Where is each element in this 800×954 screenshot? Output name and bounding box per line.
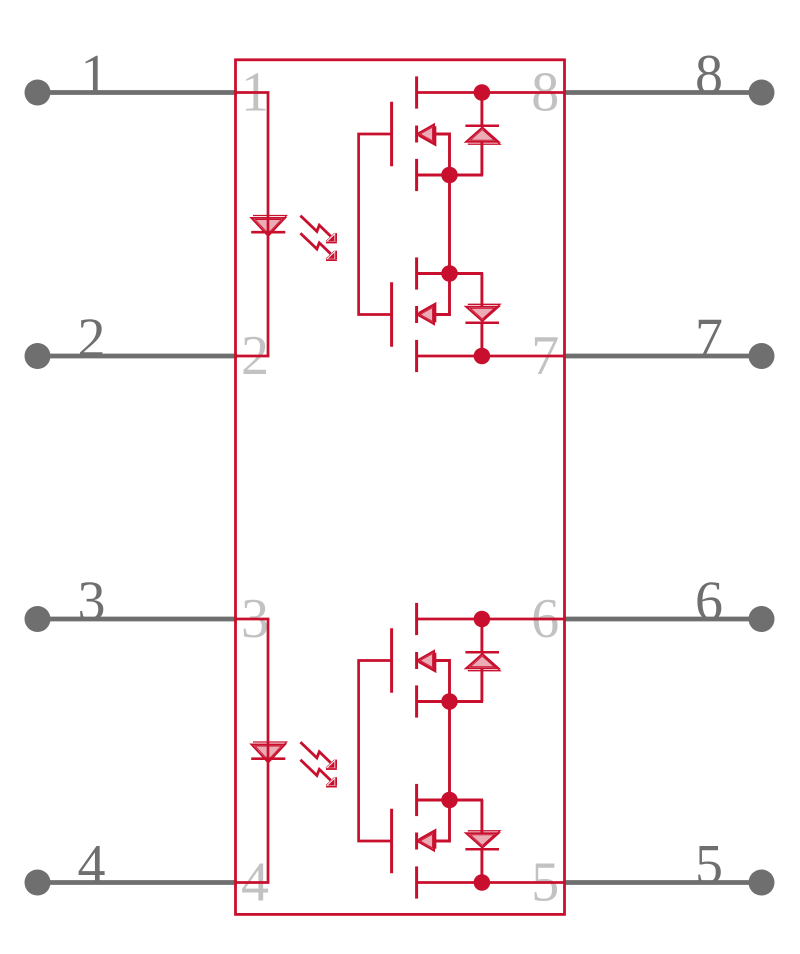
MOSFET Q1 channel body segment [415,126,418,143]
svg-text:5: 5 [695,834,723,896]
svg-text:4: 4 [78,834,106,896]
source-to-source wire Q1/Q2 [448,175,451,274]
junction dot source node Q1 [441,167,458,184]
pin 1 external wire [38,90,238,95]
svg-text:2: 2 [78,308,106,370]
junction dot source node Q2 [441,265,458,282]
LED2 triangle [253,742,287,760]
pin 5 external wire [564,880,762,885]
LED2 anode wire (vertical) [267,619,270,883]
MOSFET Q1 channel source segment [415,159,418,191]
body diode D2 anode wire [480,274,483,307]
body diode D1 cathode wire [480,93,483,126]
junction dot drain node Q2 [474,348,491,365]
pin 4 terminal circle [25,870,51,896]
wire pin 1 to LED1 anode [236,91,270,94]
MOSFET Q2 drain wire [417,355,565,358]
MOSFET Q2 channel source segment [415,257,418,289]
junction dot source node Q3 [441,693,458,710]
body diode D4 cathode wire [480,849,483,882]
junction dot drain node Q3 [474,611,491,628]
MOSFET Q3 drain wire [417,618,565,621]
pin 3 terminal circle [25,606,51,632]
wire LED2 cathode to pin 4 [236,881,270,884]
MOSFET Q1 drain wire [417,91,565,94]
pin 7 external wire [564,354,762,359]
LED1 triangle [253,216,287,234]
LED2 cathode bar [251,757,285,760]
body diode D1 cathode bar [465,125,499,127]
MOSFET Q4 source rail [417,799,484,802]
MOSFET Q3 body arrow [419,653,436,672]
svg-text:1: 1 [81,44,109,106]
pin 2 external wire [38,354,238,359]
LED1 light emission arrow 1 [300,216,330,237]
MOSFET Q1 body arrow [419,126,436,145]
gate tie wire Q1/Q2 [359,134,392,315]
MOSFET Q2 source rail [417,272,484,275]
pin 2 terminal circle [25,343,51,369]
MOSFET Q4 source lead [434,800,450,841]
wire pin 3 to LED2 anode [236,618,270,621]
pin 5 terminal circle [749,870,775,896]
MOSFET Q2 gate bar [390,282,393,346]
MOSFET Q4 channel source segment [415,784,418,816]
pin 4 external wire [38,880,238,885]
MOSFET Q4 drain wire [417,881,565,884]
MOSFET Q1 gate bar [390,102,393,166]
MOSFET Q4 channel drain segment [415,866,418,898]
IC package outline [236,60,565,915]
MOSFET Q1 source rail [417,174,484,177]
MOSFET Q3 channel body segment [415,652,418,669]
MOSFET Q2 channel drain segment [415,340,418,372]
MOSFET Q4 gate bar [390,809,393,873]
MOSFET Q3 channel drain segment [415,603,418,635]
body diode D3 cathode bar [465,651,499,653]
svg-text:6: 6 [695,571,723,633]
MOSFET Q4 body arrow [419,830,436,849]
body diode D4 triangle [468,831,500,845]
pin 6 terminal circle [749,606,775,632]
body diode D4 cathode bar [465,848,499,850]
body diode D2 cathode wire [480,323,483,356]
MOSFET Q2 body arrow [419,303,436,322]
MOSFET Q3 channel source segment [415,685,418,717]
pin 8 external wire [564,90,762,95]
svg-text:7: 7 [695,308,723,370]
MOSFET Q3 source lead [434,661,450,702]
pin 8 terminal circle [749,80,775,106]
MOSFET Q3 gate bar [390,628,393,692]
junction dot source node Q4 [441,792,458,809]
LED1 anode wire (vertical) [267,93,270,357]
body diode D1 triangle [468,130,500,144]
MOSFET Q1 source lead [434,134,450,175]
pin 7 terminal circle [749,343,775,369]
body diode D4 anode wire [480,800,483,833]
MOSFET Q2 source lead [434,274,450,315]
source-to-source wire Q3/Q4 [448,702,451,801]
body diode D2 cathode bar [465,322,499,324]
MOSFET Q1 channel drain segment [415,76,418,108]
MOSFET Q3 source rail [417,700,484,703]
svg-text:8: 8 [695,44,723,106]
wire LED1 cathode to pin 2 [236,355,270,358]
body diode D1 anode wire [480,142,483,175]
body diode D3 cathode wire [480,619,483,652]
MOSFET Q4 channel body segment [415,833,418,850]
junction dot drain node Q1 [474,84,491,101]
pin 6 external wire [564,617,762,622]
junction dot drain node Q4 [474,874,491,891]
LED2 light emission arrow 2 [300,760,330,781]
MOSFET Q2 channel body segment [415,306,418,323]
svg-text:3: 3 [78,571,106,633]
LED1 cathode bar [251,231,285,234]
body diode D3 triangle [468,656,500,670]
LED1 light emission arrow 2 [300,233,330,254]
pin 1 terminal circle [25,80,51,106]
LED2 light emission arrow 1 [300,742,330,763]
pin 3 external wire [38,617,238,622]
gate tie wire Q3/Q4 [359,661,392,842]
body diode D2 triangle [468,304,500,318]
body diode D3 anode wire [480,668,483,701]
